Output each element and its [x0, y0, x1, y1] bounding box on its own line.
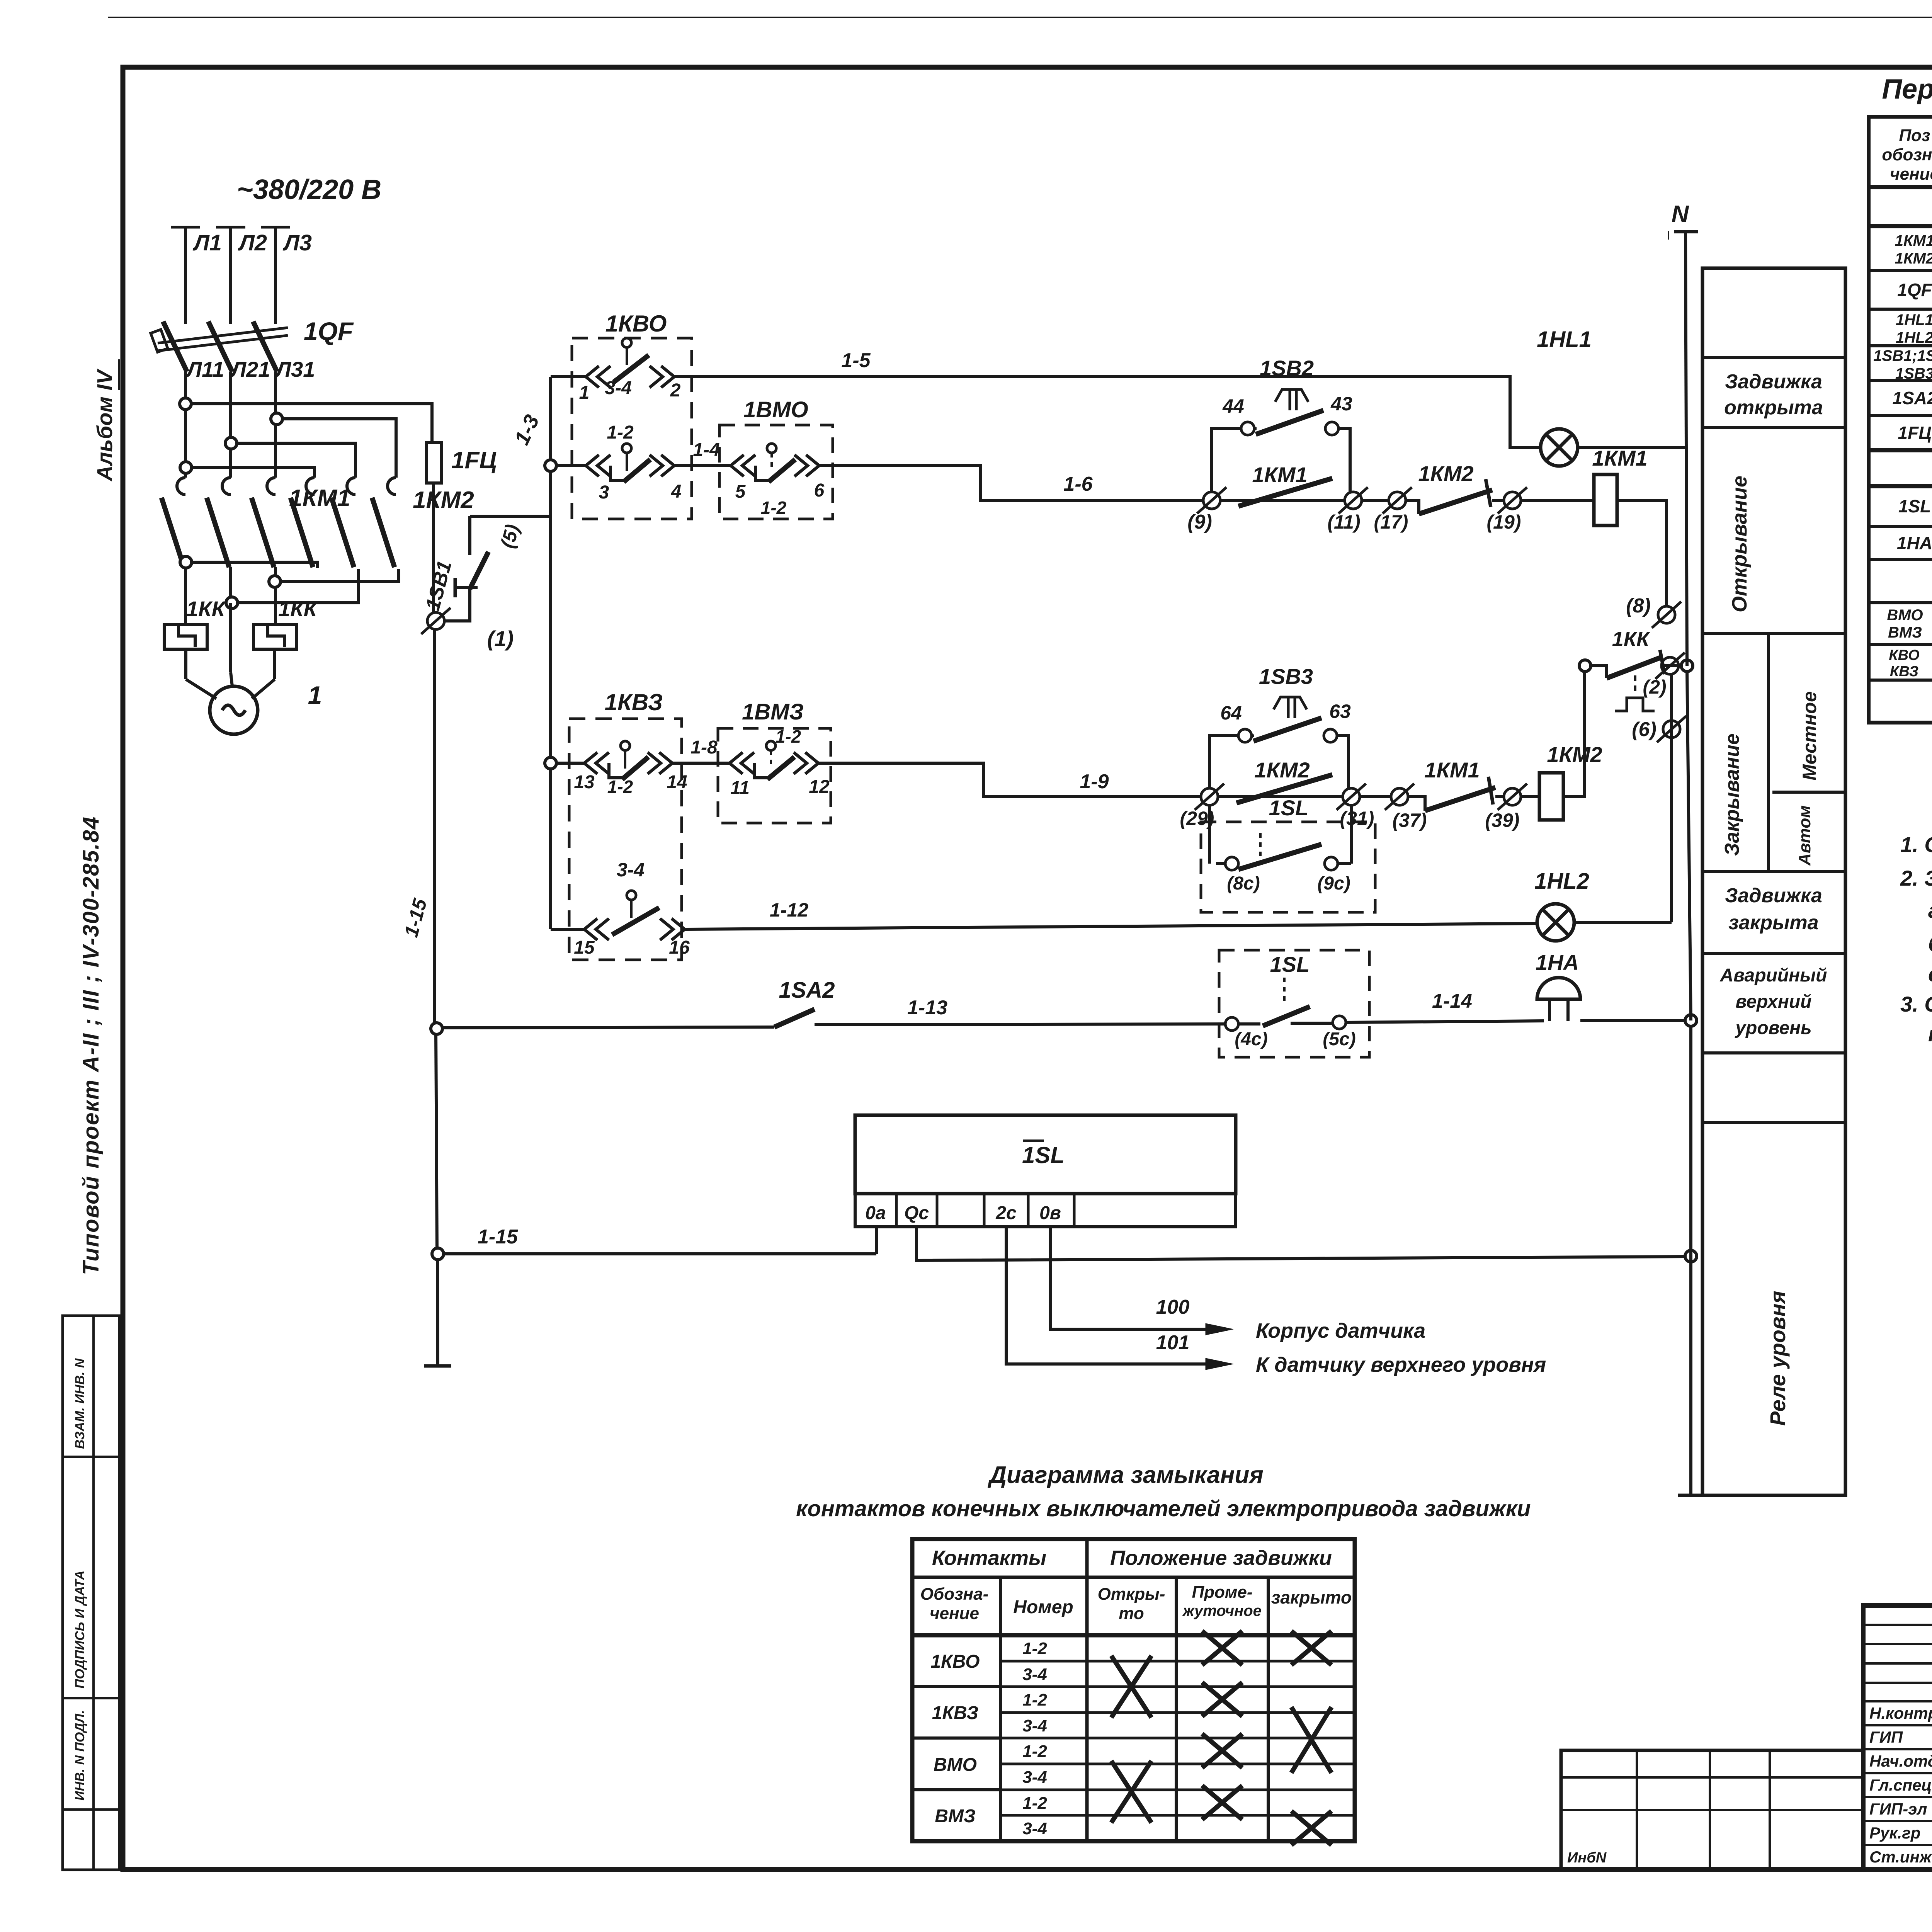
coil 1КМ2 [1521, 795, 1539, 798]
thermal relay 1КК heater left [164, 624, 207, 649]
push button 1SB2 branch [1212, 429, 1241, 492]
svg-text:(9с): (9с) [1317, 873, 1350, 894]
wire 2с terminal 101 [1006, 1227, 1206, 1364]
svg-text:1: 1 [308, 681, 322, 709]
svg-text:повышения уровня стоков.: повышения уровня стоков. [1928, 1022, 1932, 1046]
svg-text:Л21: Л21 [230, 357, 270, 381]
svg-text:1-2: 1-2 [776, 726, 801, 747]
svg-text:1SL: 1SL [1269, 796, 1309, 820]
svg-text:Л1: Л1 [192, 230, 222, 255]
wire 1-12 [685, 923, 1537, 929]
signal lamp 1HL2 [1537, 904, 1574, 941]
paper edge top line [108, 17, 1932, 18]
svg-text:1КМ1: 1КМ1 [1252, 463, 1307, 487]
svg-text:(5с): (5с) [1323, 1029, 1355, 1049]
circuit breaker 1QF [163, 321, 187, 372]
svg-text:1-14: 1-14 [1432, 990, 1472, 1012]
wire 1-6 [819, 466, 1203, 500]
limit switch box 1КВЗ [569, 719, 682, 960]
svg-text:1FЦ: 1FЦ [451, 447, 497, 474]
svg-text:а) вручную: а) вручную [1928, 898, 1932, 922]
svg-text:ИНВ. N ПОДЛ.: ИНВ. N ПОДЛ. [73, 1710, 87, 1801]
svg-text:1-13: 1-13 [907, 997, 947, 1019]
motor M [184, 649, 187, 679]
svg-text:1QF: 1QF [304, 317, 354, 345]
svg-text:1КВЗ: 1КВЗ [932, 1703, 979, 1723]
svg-text:64: 64 [1220, 702, 1242, 724]
svg-text:Номер: Номер [1013, 1597, 1073, 1617]
level relay 1SL box [855, 1115, 1236, 1194]
terminal (19) [1504, 492, 1521, 509]
svg-text:3. Сигнализация положения: 3. Сигнализация положения задвижки и [1900, 992, 1932, 1016]
svg-text:1-12: 1-12 [770, 899, 808, 921]
svg-text:Местное: Местное [1799, 691, 1820, 781]
output jumper contact5 to Л21 [226, 597, 238, 609]
svg-text:1-2: 1-2 [607, 777, 633, 797]
svg-text:1. Открытие задвижки вручн: 1. Открытие задвижки вручную [1900, 832, 1932, 857]
svg-text:1НА: 1НА [1536, 950, 1579, 975]
svg-text:(1): (1) [487, 626, 514, 651]
svg-text:то: то [1119, 1604, 1144, 1623]
terminal (37) [1391, 788, 1408, 805]
terminal (6) [1663, 721, 1680, 738]
svg-text:1SB2: 1SB2 [1260, 356, 1314, 380]
contact 1КМ1 NC [1408, 797, 1425, 811]
svg-text:1КВО: 1КВО [930, 1651, 980, 1672]
svg-text:1HL1: 1HL1 [1537, 327, 1592, 352]
svg-text:1HL2: 1HL2 [1896, 329, 1932, 346]
svg-text:Положение задвижки: Положение задвижки [1110, 1546, 1332, 1570]
svg-text:Проме-: Проме- [1192, 1583, 1252, 1602]
svg-text:~380/220 В: ~380/220 В [237, 174, 381, 205]
svg-text:15: 15 [574, 937, 595, 958]
svg-text:(2): (2) [1643, 676, 1666, 698]
wire 1-15 [444, 1252, 876, 1255]
svg-text:Поз: Поз [1899, 126, 1930, 145]
terminal (39) [1504, 788, 1521, 805]
svg-text:чение: чение [930, 1604, 979, 1623]
svg-text:1КВЗ: 1КВЗ [605, 689, 663, 715]
svg-text:2с: 2с [995, 1203, 1016, 1223]
wire 0в terminal 100 [1050, 1227, 1206, 1329]
svg-text:Аварийный: Аварийный [1720, 965, 1827, 986]
fuse 1FЦ [427, 442, 441, 483]
1КВО contact 1-2 [556, 464, 580, 467]
svg-text:1-8: 1-8 [690, 737, 718, 758]
svg-text:100: 100 [1156, 1296, 1190, 1318]
wire 1-5 [674, 377, 1541, 447]
svg-text:1SL: 1SL [1270, 952, 1310, 976]
coil 1КМ1 [1521, 499, 1594, 502]
node 1-15 [432, 1248, 444, 1260]
svg-text:(39): (39) [1485, 810, 1520, 831]
svg-text:5: 5 [735, 481, 746, 502]
terminal (31) [1343, 788, 1360, 805]
diagram table grid [912, 1539, 1355, 1841]
svg-text:жуточное: жуточное [1182, 1602, 1262, 1619]
svg-text:(9): (9) [1187, 511, 1212, 533]
svg-text:1HL1: 1HL1 [1896, 311, 1932, 328]
left inventory mini table [63, 1316, 119, 1870]
element list table grid [1869, 117, 1932, 723]
svg-text:13: 13 [574, 772, 595, 793]
terminal (9) [1203, 492, 1220, 509]
X marks [1202, 1631, 1242, 1665]
svg-text:1-15: 1-15 [478, 1226, 518, 1248]
svg-text:К датчику верхнего уровня: К датчику верхнего уровня [1256, 1353, 1546, 1376]
terminal (8) on coil return [1658, 606, 1675, 623]
svg-text:Перечень элементов принцип: Перечень элементов принципиальной схемы [1882, 74, 1932, 105]
control feed line down [433, 629, 436, 1026]
level relay contact 1SL (4с)(5с) [1219, 950, 1369, 1057]
wire lamp to riser [1574, 921, 1672, 924]
release symbol [1634, 675, 1636, 695]
svg-text:Автом: Автом [1795, 805, 1814, 866]
contact 1КМ1 auxiliary [1220, 499, 1345, 502]
svg-text:Л2: Л2 [238, 230, 267, 255]
svg-text:1ВМЗ: 1ВМЗ [742, 699, 804, 724]
svg-text:3-4: 3-4 [1022, 1716, 1047, 1735]
function zone table [1702, 268, 1845, 1495]
svg-text:ИнбN: ИнбN [1567, 1850, 1607, 1866]
svg-text:(31): (31) [1340, 808, 1374, 829]
svg-text:Л11: Л11 [185, 357, 224, 381]
svg-text:ГИП: ГИП [1869, 1728, 1903, 1746]
svg-text:1SB3: 1SB3 [1895, 365, 1932, 382]
svg-text:1КМ2: 1КМ2 [1254, 758, 1310, 782]
svg-text:1-9: 1-9 [1080, 770, 1109, 793]
control bus riser [549, 377, 552, 929]
svg-text:(11): (11) [1327, 511, 1360, 533]
contact 1КМ2 auxiliary self-hold [1218, 795, 1343, 798]
svg-text:Нач.отд: Нач.отд [1869, 1752, 1932, 1770]
svg-text:Типовой проект А-II ;: Типовой проект А-II ; III ; IV-300-285.8… [78, 816, 104, 1275]
svg-text:1-2: 1-2 [1022, 1794, 1047, 1813]
signal lamp 1HL1 [1541, 429, 1578, 466]
svg-text:1КМ1: 1КМ1 [1592, 446, 1647, 470]
wire 1-9 [818, 763, 1201, 797]
svg-text:(4с): (4с) [1235, 1029, 1267, 1049]
microswitch box 1ВМО [719, 425, 833, 519]
phase line Л2 top tick [216, 226, 245, 229]
svg-text:контактов конечных выклю: контактов конечных выключателей электроп… [796, 1496, 1531, 1521]
svg-text:1КМ1: 1КМ1 [289, 485, 350, 512]
svg-text:1КМ2: 1КМ2 [1547, 742, 1602, 767]
node (5) wire [470, 515, 551, 518]
svg-text:1КК: 1КК [1612, 628, 1651, 651]
coil return wire to (8) [1617, 500, 1667, 606]
svg-text:ВЗАМ. ИНВ. N: ВЗАМ. ИНВ. N [73, 1358, 87, 1449]
1КВО contact 3-4 [551, 375, 580, 378]
svg-text:Диаграмма замыкания: Диаграмма замыкания [987, 1462, 1263, 1488]
svg-text:3: 3 [599, 482, 609, 503]
svg-text:Задвижка: Задвижка [1725, 884, 1822, 907]
svg-text:обозна-: обозна- [1882, 145, 1932, 164]
terminal (2) [1662, 657, 1679, 674]
svg-text:(19): (19) [1487, 511, 1521, 533]
svg-text:44: 44 [1222, 395, 1244, 417]
svg-text:ГИП-эл: ГИП-эл [1869, 1800, 1927, 1818]
svg-text:ВМЗ: ВМЗ [935, 1806, 976, 1827]
svg-text:1КК: 1КК [186, 597, 226, 621]
sign table rows [1863, 1624, 1932, 1626]
1КВЗ contact 3-4 [551, 928, 578, 931]
svg-text:4: 4 [671, 481, 682, 502]
svg-text:(17): (17) [1374, 511, 1408, 533]
svg-text:1НА: 1НА [1897, 533, 1932, 553]
stop button 1SB1 [444, 589, 470, 621]
output jumper contact4 to Л11 [180, 556, 192, 568]
svg-text:ВМЗ: ВМЗ [1888, 624, 1922, 641]
1ВМО contact 1-2 [724, 464, 731, 467]
limit switch box 1КВО [572, 338, 692, 519]
svg-text:уровень: уровень [1735, 1018, 1811, 1038]
svg-text:1КМ2: 1КМ2 [413, 487, 474, 514]
wire Qc to N [917, 1227, 1685, 1260]
1SL terminal row [855, 1194, 1236, 1227]
level relay contact 1SL (8с)(9с) [1201, 822, 1375, 912]
svg-text:Н.контр.: Н.контр. [1869, 1704, 1932, 1722]
svg-text:1КМ1: 1КМ1 [1424, 758, 1480, 782]
svg-text:ВМО: ВМО [934, 1755, 977, 1775]
svg-text:2: 2 [670, 380, 681, 401]
svg-text:1-6: 1-6 [1063, 473, 1093, 495]
phase line Л3 top tick [261, 226, 290, 229]
svg-text:1КК: 1КК [278, 597, 318, 621]
svg-text:14: 14 [667, 772, 687, 793]
svg-text:0а: 0а [865, 1203, 886, 1223]
wire to 1SA2 [442, 1027, 774, 1028]
node 1SA2 rung [431, 1023, 442, 1034]
svg-text:Задвижка: Задвижка [1725, 371, 1822, 393]
crossover jumper Л31 to contact 6 [271, 413, 282, 425]
terminal (17) [1389, 492, 1406, 509]
output jumper contact6 to Л31 [269, 576, 281, 587]
svg-text:43: 43 [1330, 393, 1352, 415]
bottom-left block of title area [1561, 1750, 1863, 1869]
svg-text:Корпус датчика: Корпус датчика [1256, 1319, 1425, 1342]
thermal relay 1КК heater right [253, 624, 296, 649]
svg-text:1SL: 1SL [1022, 1142, 1065, 1168]
svg-text:(6): (6) [1632, 718, 1656, 741]
svg-text:1SA2: 1SA2 [1892, 388, 1932, 408]
microswitch box 1ВМЗ [718, 728, 831, 823]
svg-text:Рук.гр: Рук.гр [1869, 1824, 1920, 1842]
wire 0a to 1-15 [875, 1227, 878, 1254]
title block outer [1863, 1605, 1932, 1869]
svg-text:3-4: 3-4 [617, 859, 645, 881]
svg-text:1SB1;1SB2: 1SB1;1SB2 [1873, 347, 1932, 364]
svg-text:1SB3: 1SB3 [1259, 664, 1313, 689]
1КВЗ contact 1-2 [556, 762, 578, 765]
svg-text:1FЦ: 1FЦ [1898, 423, 1931, 443]
svg-text:3-4: 3-4 [605, 378, 631, 398]
svg-text:ПОДПИСЬ И ДАТА: ПОДПИСЬ И ДАТА [73, 1570, 87, 1689]
1ВМЗ contact 1-2 [723, 762, 730, 765]
svg-text:1QF: 1QF [1897, 280, 1932, 300]
svg-text:1: 1 [579, 383, 590, 403]
svg-text:б) автоматическое, в зависим: б) автоматическое, в зависимости от уров… [1928, 932, 1932, 956]
phase line Л1 top tick [171, 226, 200, 229]
wire 1-8 [672, 762, 723, 765]
svg-text:Контакты: Контакты [932, 1546, 1046, 1570]
bell 1НА [1537, 978, 1580, 999]
svg-text:Откры-: Откры- [1098, 1585, 1165, 1604]
svg-text:1-2: 1-2 [607, 422, 634, 443]
wire: Л11 node to fuse feed [180, 398, 191, 410]
node 1НА to N [1685, 1015, 1697, 1026]
svg-text:Обозна-: Обозна- [920, 1585, 989, 1604]
svg-text:6: 6 [814, 480, 825, 501]
svg-text:1КМ2: 1КМ2 [1418, 461, 1473, 486]
toggle switch 1SA2 [774, 1009, 815, 1027]
terminal (1) [427, 612, 444, 629]
svg-text:12: 12 [809, 777, 830, 797]
svg-text:101: 101 [1156, 1332, 1190, 1354]
svg-text:(8с): (8с) [1227, 873, 1260, 894]
svg-text:1-2: 1-2 [1022, 1690, 1047, 1709]
svg-text:Гл.спец.: Гл.спец. [1869, 1776, 1932, 1794]
svg-text:1КМ1: 1КМ1 [1895, 232, 1932, 249]
svg-text:открыта: открыта [1724, 396, 1823, 419]
svg-text:16: 16 [669, 937, 690, 958]
thermal contact 1КК NC [1591, 666, 1607, 678]
svg-text:1-5: 1-5 [841, 349, 871, 372]
mid divider Местное/Автом [1767, 634, 1770, 871]
svg-text:верхний: верхний [1736, 992, 1812, 1012]
svg-text:63: 63 [1329, 701, 1351, 722]
contactor 1КМ2 main contacts [306, 478, 315, 495]
svg-text:Альбом IV: Альбом IV [92, 368, 117, 482]
svg-text:0в: 0в [1039, 1203, 1061, 1223]
phase line Л1 [184, 227, 187, 324]
1QF crossbar [158, 335, 288, 351]
svg-text:Реле уровня: Реле уровня [1765, 1291, 1790, 1426]
svg-text:Закрывание: Закрывание [1721, 733, 1743, 856]
crossover jumper Л11 to contact 4 [180, 462, 192, 473]
push button 1SB3 branch [1209, 736, 1238, 788]
terminal (29) [1201, 788, 1218, 805]
phase line Л2 [229, 227, 232, 324]
svg-text:3-4: 3-4 [1022, 1768, 1047, 1787]
svg-text:3-4: 3-4 [1022, 1665, 1047, 1684]
contact 1КМ2 NC [1406, 500, 1419, 514]
wire 1КМ2 coil return up [1563, 672, 1584, 797]
svg-text:2. Закрытие задвижки: 2. Закрытие задвижки [1900, 866, 1932, 890]
svg-text:1SL: 1SL [1898, 496, 1931, 516]
svg-text:Л31: Л31 [275, 357, 315, 381]
svg-text:закрыта: закрыта [1728, 912, 1818, 934]
svg-text:КВО: КВО [1889, 647, 1919, 663]
svg-text:N: N [1672, 201, 1689, 228]
svg-text:ВМО: ВМО [1887, 607, 1923, 624]
svg-text:1КМ2: 1КМ2 [1895, 250, 1932, 267]
node закрывание [545, 757, 556, 769]
svg-text:1-2: 1-2 [1022, 1639, 1047, 1658]
svg-text:КВЗ: КВЗ [1890, 663, 1918, 680]
svg-text:Ст.инж: Ст.инж [1869, 1848, 1932, 1866]
svg-text:11: 11 [730, 778, 750, 798]
branch down through (6) to 1HL2 wire [1670, 674, 1673, 902]
svg-text:закрыто: закрыто [1271, 1587, 1352, 1607]
svg-text:1-2: 1-2 [1022, 1742, 1047, 1761]
wire 1-4 [674, 464, 724, 467]
contactor 1КМ1 main contacts [177, 478, 185, 495]
svg-text:1-2: 1-2 [761, 498, 787, 518]
node rung2 [545, 460, 556, 471]
crossover jumper Л21 to contact 5 [225, 437, 237, 449]
svg-text:чение: чение [1890, 165, 1932, 184]
svg-text:(37): (37) [1393, 810, 1427, 831]
svg-text:(8): (8) [1626, 595, 1651, 617]
svg-text:1HL2: 1HL2 [1534, 869, 1589, 894]
svg-text:Открывание: Открывание [1728, 476, 1751, 612]
phase line Л3 [274, 227, 277, 324]
wire lamp to N [1578, 446, 1685, 449]
terminal (11) [1345, 492, 1362, 509]
svg-text:Л3: Л3 [282, 230, 312, 255]
svg-text:1SA2: 1SA2 [779, 978, 835, 1003]
svg-text:1-4: 1-4 [693, 440, 719, 460]
1QF flag [151, 330, 168, 352]
node 1КК to N [1681, 660, 1693, 672]
svg-text:Qс: Qс [904, 1203, 929, 1223]
svg-text:1ВМО: 1ВМО [743, 397, 808, 422]
svg-text:стоков в трубопроводе.: стоков в трубопроводе. [1928, 962, 1932, 986]
svg-text:1КВО: 1КВО [605, 311, 667, 337]
svg-text:3-4: 3-4 [1022, 1819, 1047, 1838]
